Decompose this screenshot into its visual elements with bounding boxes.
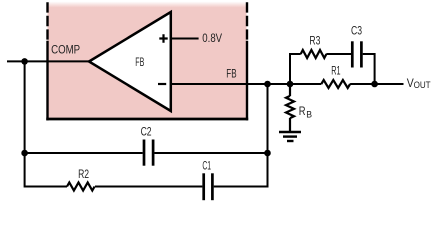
wire R3/C3 branch bbox=[290, 54, 375, 84]
junction dot COMP node bbox=[21, 58, 28, 65]
wire FB output line bbox=[171, 83, 404, 85]
resistor RB bbox=[286, 84, 312, 131]
svg-text:R2: R2 bbox=[78, 167, 89, 181]
op-amp U1 FB error amplifier bbox=[89, 12, 171, 111]
resistor R1 bbox=[321, 80, 350, 88]
block left edge dashed bbox=[46, 2, 48, 39]
wire C2 branch bbox=[25, 152, 268, 154]
resistor R2 bbox=[67, 183, 95, 191]
svg-text:C1: C1 bbox=[202, 158, 211, 172]
block bottom edge bbox=[46, 118, 248, 121]
svg-text:FB: FB bbox=[226, 66, 236, 80]
svg-text:FB: FB bbox=[135, 55, 144, 69]
ground bbox=[279, 132, 301, 141]
svg-text:C2: C2 bbox=[141, 125, 152, 139]
svg-text:R: R bbox=[299, 105, 306, 118]
svg-text:R3: R3 bbox=[309, 33, 320, 47]
minus input marker bbox=[158, 83, 166, 85]
capacitor C3 bbox=[352, 41, 361, 67]
junction dot C2 left bbox=[21, 150, 28, 157]
wire 0.8V reference bbox=[171, 38, 199, 40]
plus input marker bbox=[159, 34, 167, 42]
block right edge solid bbox=[246, 41, 248, 121]
junction dot R3C3 top branch bbox=[287, 81, 294, 88]
svg-text:R1: R1 bbox=[331, 63, 340, 77]
resistor R3 bbox=[301, 50, 327, 58]
svg-text:OUT: OUT bbox=[414, 79, 431, 90]
junction dot FB node bbox=[264, 81, 271, 88]
wire R2/C1 branch bbox=[95, 186, 268, 188]
svg-text:B: B bbox=[306, 108, 312, 119]
junction dot C3 return bbox=[371, 81, 378, 88]
capacitor C1 bbox=[204, 173, 213, 200]
error amplifier block shaded region bbox=[48, 2, 247, 118]
svg-text:COMP: COMP bbox=[51, 42, 80, 56]
wire right vertical feedback bbox=[260, 84, 268, 187]
wire COMP input bbox=[7, 60, 89, 62]
junction dot C2 right bbox=[264, 150, 271, 157]
block right edge dashed bbox=[246, 2, 248, 39]
svg-text:0.8V: 0.8V bbox=[202, 31, 222, 45]
label VOUT bbox=[407, 76, 431, 90]
svg-text:C3: C3 bbox=[351, 24, 362, 38]
capacitor C2 bbox=[144, 140, 153, 166]
block left edge solid bbox=[46, 41, 48, 121]
wire left vertical bbox=[25, 61, 67, 186]
